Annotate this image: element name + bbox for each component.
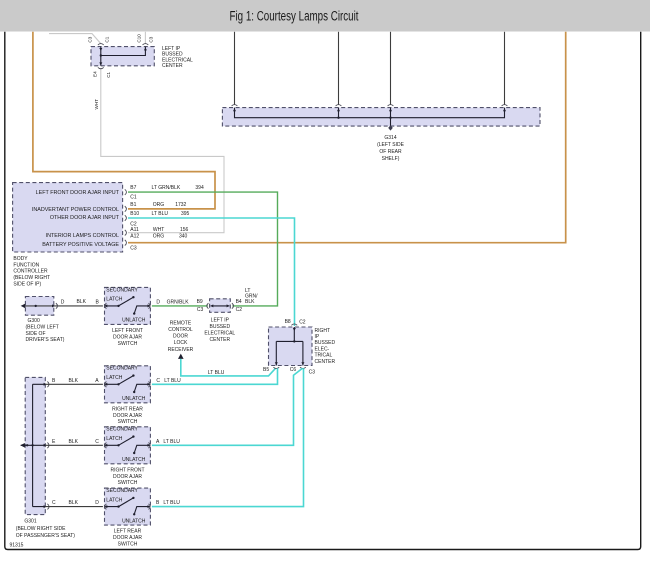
- svg-text:ORG: ORG: [153, 234, 165, 240]
- svg-text:DRIVER'S SEAT): DRIVER'S SEAT): [26, 337, 65, 343]
- svg-text:C6: C6: [290, 367, 297, 373]
- wire: WHT 156 from left IP BEC to A11: [101, 69, 224, 233]
- ground G301 box: [25, 377, 45, 514]
- svg-text:BLK: BLK: [77, 299, 87, 305]
- ground G301 dot: [26, 444, 28, 446]
- svg-text:C1: C1: [106, 71, 111, 77]
- svg-text:LT BLU: LT BLU: [152, 211, 169, 217]
- svg-text:INADVERTANT POWER CONTROL: INADVERTANT POWER CONTROL: [32, 207, 119, 213]
- svg-text:1732: 1732: [175, 202, 186, 208]
- wire label LT GRN/ BLK stack: [245, 288, 258, 305]
- svg-text:LEFT IP: LEFT IP: [211, 318, 230, 324]
- svg-text:REMOTE: REMOTE: [170, 320, 192, 326]
- svg-text:B1: B1: [130, 202, 136, 208]
- arrow out pin B5: [275, 362, 278, 365]
- svg-text:WHT: WHT: [94, 99, 99, 110]
- svg-text:B4: B4: [236, 299, 242, 305]
- label body function controller: [13, 256, 50, 288]
- left front door ajar switch: [104, 287, 150, 324]
- junction dot G301 bus: [31, 444, 33, 446]
- label right front door ajar switch: [110, 467, 144, 486]
- svg-text:OTHER DOOR AJAR INPUT: OTHER DOOR AJAR INPUT: [50, 215, 120, 221]
- svg-text:(BELOW LEFT: (BELOW LEFT: [26, 325, 59, 331]
- svg-text:Fig 1: Courtesy Lamps Circuit: Fig 1: Courtesy Lamps Circuit: [229, 8, 359, 24]
- svg-text:LT GRN/BLK: LT GRN/BLK: [152, 185, 181, 191]
- svg-text:BLK: BLK: [245, 299, 255, 305]
- svg-text:C: C: [95, 439, 99, 445]
- svg-text:D: D: [95, 500, 99, 506]
- label left rear door ajar switch: [113, 529, 142, 548]
- svg-text:ORG: ORG: [153, 202, 165, 208]
- ground G314 attachment diamond: [388, 125, 393, 130]
- svg-text:CONTROLLER: CONTROLLER: [13, 269, 48, 275]
- label left front door ajar switch: [112, 328, 143, 347]
- svg-text:CENTER: CENTER: [162, 63, 183, 69]
- svg-text:CENTER: CENTER: [210, 337, 231, 343]
- svg-text:A12: A12: [130, 234, 139, 240]
- svg-text:G314: G314: [384, 135, 396, 141]
- right IP bussed electrical center box: [269, 327, 313, 366]
- svg-text:SWITCH: SWITCH: [118, 480, 138, 486]
- svg-text:SHELF): SHELF): [382, 156, 400, 162]
- body function controller box: [13, 183, 123, 252]
- arrow into pin C2 top: [99, 48, 102, 51]
- pin bracket top pin1: [98, 44, 104, 45]
- label G314 (left side of rear shelf): [377, 135, 405, 162]
- label G300 (below left side of driver's seat): [26, 318, 65, 343]
- G301 internal bus: [21, 384, 46, 506]
- svg-text:B10: B10: [130, 211, 139, 217]
- svg-text:BLK: BLK: [69, 439, 79, 445]
- label left IP bussed electrical center: [162, 46, 193, 69]
- svg-text:CENTER: CENTER: [315, 359, 336, 365]
- svg-text:LATCH: LATCH: [106, 297, 122, 303]
- label remote control door lock receiver: [168, 320, 194, 352]
- junction dot bus 2: [389, 117, 391, 119]
- svg-text:ELEC-: ELEC-: [315, 346, 330, 352]
- ground G300 box: [25, 297, 53, 316]
- svg-text:LATCH: LATCH: [106, 375, 122, 381]
- svg-text:G300: G300: [28, 318, 40, 324]
- svg-text:C1: C1: [105, 36, 110, 42]
- pin bracket top pin2: [143, 44, 149, 45]
- wire: stub above left IP BEC pin C10: [144, 32, 146, 44]
- wire: ORG 340 battery positive from A12 to top right: [128, 32, 566, 243]
- ground G300 junction dot: [35, 305, 37, 307]
- svg-text:LATCH: LATCH: [106, 436, 122, 442]
- svg-text:C10: C10: [136, 34, 141, 43]
- right front door ajar switch: [104, 427, 150, 464]
- svg-text:RIGHT REAR: RIGHT REAR: [112, 406, 143, 412]
- svg-text:SECONDARY: SECONDARY: [106, 287, 138, 293]
- svg-text:D: D: [61, 299, 65, 305]
- svg-text:(BELOW RIGHT SIDE: (BELOW RIGHT SIDE: [16, 526, 66, 532]
- svg-text:C: C: [156, 378, 160, 384]
- svg-text:E4: E4: [93, 71, 98, 77]
- svg-text:SWITCH: SWITCH: [118, 419, 138, 425]
- svg-text:DOOR: DOOR: [173, 334, 188, 340]
- svg-text:BLK: BLK: [69, 500, 79, 506]
- svg-text:OF REAR: OF REAR: [379, 149, 402, 155]
- svg-text:156: 156: [180, 227, 189, 233]
- svg-text:A11: A11: [130, 227, 139, 233]
- svg-text:DOOR AJAR: DOOR AJAR: [113, 413, 142, 419]
- wire: LT BLU right front door switch to C6: [152, 368, 303, 445]
- svg-text:B9: B9: [197, 299, 203, 305]
- svg-text:LEFT FRONT: LEFT FRONT: [112, 328, 143, 334]
- svg-text:DOOR AJAR: DOOR AJAR: [113, 535, 142, 541]
- svg-text:UNLATCH: UNLATCH: [122, 518, 146, 524]
- wire: courtesy lamp feed 4 (black, top): [504, 32, 506, 105]
- wire: BLK G301 to right rear door switch: [45, 383, 103, 385]
- svg-text:SECONDARY: SECONDARY: [106, 366, 138, 372]
- pass-through internal wire with arrows: [211, 305, 230, 307]
- svg-text:FUNCTION: FUNCTION: [13, 262, 39, 268]
- right rear door ajar switch: [104, 366, 150, 403]
- wire: LT BLU right rear door switch to B5: [152, 368, 278, 384]
- svg-text:D: D: [156, 299, 160, 305]
- svg-text:BUSSED: BUSSED: [315, 340, 336, 346]
- left IP BEC internal bus: [101, 47, 146, 66]
- svg-text:LEFT REAR: LEFT REAR: [114, 529, 142, 535]
- svg-text:C3: C3: [87, 36, 92, 42]
- svg-text:RECEIVER: RECEIVER: [168, 347, 194, 353]
- wire: BLK from G300 to left front door ajar switch: [25, 305, 103, 307]
- wire: GRN/BLK from left front door switch D to B9: [152, 305, 208, 307]
- svg-text:ELECTRICAL: ELECTRICAL: [204, 330, 235, 336]
- svg-text:C2: C2: [236, 307, 243, 313]
- svg-text:RIGHT FRONT: RIGHT FRONT: [110, 467, 144, 473]
- svg-text:SIDE OF IP): SIDE OF IP): [13, 282, 41, 288]
- svg-text:UNLATCH: UNLATCH: [122, 457, 146, 463]
- label G301 (below right side of passenger's seat): [16, 519, 75, 540]
- ground G300 arrow symbol: [21, 304, 26, 309]
- wire: LT BLU left rear door switch to C6: [152, 368, 304, 506]
- svg-text:UNLATCH: UNLATCH: [122, 396, 146, 402]
- svg-text:B5: B5: [263, 367, 269, 373]
- pin bracket C6: [300, 367, 306, 368]
- svg-text:DOOR AJAR: DOOR AJAR: [113, 474, 142, 480]
- pin bracket B5: [273, 367, 279, 368]
- svg-text:IP: IP: [315, 334, 320, 340]
- svg-text:CONTROL: CONTROL: [168, 327, 193, 333]
- svg-text:G301: G301: [24, 519, 36, 525]
- svg-text:UNLATCH: UNLATCH: [122, 318, 146, 324]
- svg-text:SWITCH: SWITCH: [118, 542, 138, 548]
- wire: LT GRN/BLK 394 from B7 to B4: [128, 192, 278, 306]
- pin bracket B4: [232, 303, 234, 309]
- svg-text:GRN/BLK: GRN/BLK: [167, 299, 190, 305]
- svg-text:91315: 91315: [10, 543, 24, 549]
- internal ground bus of long box: [235, 108, 505, 127]
- svg-text:SECONDARY: SECONDARY: [106, 427, 138, 433]
- wire: LT BLU from receiver to B5: [181, 359, 276, 376]
- pin bracket B8: [291, 324, 297, 325]
- svg-text:LEFT FRONT DOOR AJAR INPUT: LEFT FRONT DOOR AJAR INPUT: [36, 190, 120, 196]
- left IP bussed electrical center box (top): [91, 47, 154, 66]
- svg-text:WHT: WHT: [153, 227, 164, 233]
- wire: courtesy lamp feed 3 (black, top): [390, 32, 392, 105]
- svg-text:B8: B8: [285, 319, 291, 325]
- svg-text:C3: C3: [149, 36, 154, 42]
- svg-text:DOOR AJAR: DOOR AJAR: [113, 334, 142, 340]
- label right IP bussed electrical center: [315, 328, 336, 365]
- svg-text:C1: C1: [130, 194, 137, 200]
- wire: WHT feed stub at top left: [49, 34, 101, 44]
- svg-text:BATTERY POSITIVE VOLTAGE: BATTERY POSITIVE VOLTAGE: [42, 242, 119, 248]
- svg-text:SECONDARY: SECONDARY: [106, 488, 138, 494]
- wire: LT BLU 395 from B10 to B8: [128, 218, 295, 326]
- svg-text:RIGHT: RIGHT: [315, 328, 331, 334]
- BFC pin brackets: [125, 189, 127, 245]
- svg-text:OF PASSENGER'S SEAT): OF PASSENGER'S SEAT): [16, 533, 75, 539]
- wire: courtesy lamp feed 1 (black, top): [234, 32, 236, 105]
- left rear door ajar switch: [104, 488, 150, 525]
- wire: ORG 1732 inadvertant power from B1: [33, 32, 215, 209]
- arrow into pin B8: [293, 328, 296, 331]
- svg-text:394: 394: [195, 185, 204, 191]
- svg-text:LOCK: LOCK: [174, 340, 188, 346]
- svg-text:340: 340: [179, 234, 188, 240]
- ground G301 arrow symbol: [20, 443, 25, 448]
- label right rear door ajar switch: [112, 406, 143, 425]
- svg-text:C3: C3: [197, 307, 204, 313]
- svg-text:BLK: BLK: [69, 378, 79, 384]
- right IP BEC internal bus: [276, 327, 303, 366]
- svg-text:SWITCH: SWITCH: [118, 341, 138, 347]
- junction dot right IP BEC: [293, 340, 295, 342]
- svg-text:LT BLU: LT BLU: [163, 439, 180, 445]
- G300 exit arrow pin D: [52, 304, 55, 307]
- svg-text:INTERIOR LAMPS CONTROL: INTERIOR LAMPS CONTROL: [46, 233, 119, 239]
- arrow out pin E4 bottom: [99, 62, 102, 65]
- wire: BLK G301 to left rear door switch: [45, 506, 103, 508]
- title header bar: [0, 0, 650, 32]
- pin brackets long box: [232, 105, 508, 106]
- svg-text:395: 395: [181, 211, 190, 217]
- BFC internal labels: [32, 190, 120, 248]
- svg-text:LT BLU: LT BLU: [164, 378, 181, 384]
- svg-text:(BELOW RIGHT: (BELOW RIGHT: [13, 275, 50, 281]
- svg-text:C3: C3: [309, 369, 316, 375]
- svg-text:BUSSED: BUSSED: [210, 324, 231, 330]
- receiver antenna triangle: [178, 354, 184, 359]
- svg-text:C3: C3: [130, 245, 137, 251]
- svg-text:LT BLU: LT BLU: [163, 500, 180, 506]
- arrow pin C10 top: [144, 47, 147, 50]
- svg-text:B7: B7: [130, 185, 136, 191]
- arrow out pin C6: [301, 362, 304, 365]
- svg-text:SIDE OF: SIDE OF: [26, 331, 46, 337]
- junction dot bus 1: [337, 117, 339, 119]
- svg-text:LT BLU: LT BLU: [208, 370, 225, 376]
- svg-text:C: C: [52, 500, 56, 506]
- svg-text:BODY: BODY: [13, 256, 28, 262]
- svg-text:(LEFT SIDE: (LEFT SIDE: [377, 142, 405, 148]
- pin bracket bottom pin1: [98, 67, 104, 68]
- pin arrows into long box: [233, 108, 236, 111]
- svg-text:C2: C2: [299, 319, 306, 325]
- rear courtesy lamp bus box (long dashed box): [222, 108, 540, 127]
- wire: BLK G301 to right front door switch: [45, 444, 103, 446]
- pin bracket B9: [207, 303, 209, 309]
- left IP BEC pass-through box (small): [210, 299, 231, 313]
- label left IP bussed electrical center (middle): [204, 318, 235, 343]
- svg-text:TRICAL: TRICAL: [315, 353, 333, 359]
- svg-text:LATCH: LATCH: [106, 497, 122, 503]
- wire: courtesy lamp feed 2 (black, top): [338, 32, 340, 105]
- junction dot left IP BEC: [100, 54, 102, 56]
- G301 exit arrows and brackets: [44, 383, 47, 386]
